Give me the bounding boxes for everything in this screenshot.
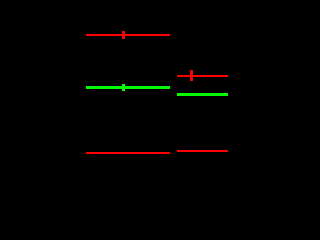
data segment 1 (red, upper left bin) — [86, 34, 170, 36]
data segment 2 (red, upper right bin) — [177, 75, 228, 77]
residual segment 2 (red, lower right bin) — [177, 150, 228, 152]
model segment 1 (green, left bin) — [86, 86, 170, 89]
residual segment 1 (red, lower left bin) — [86, 152, 170, 154]
error tick 2 (red, center of segment 2) — [190, 70, 193, 81]
error tick 1 (red, center of segment 1) — [122, 31, 125, 39]
model tick 1 (green, center of model segment 1) — [122, 84, 125, 91]
model segment 2 (green, right bin) — [177, 93, 228, 96]
